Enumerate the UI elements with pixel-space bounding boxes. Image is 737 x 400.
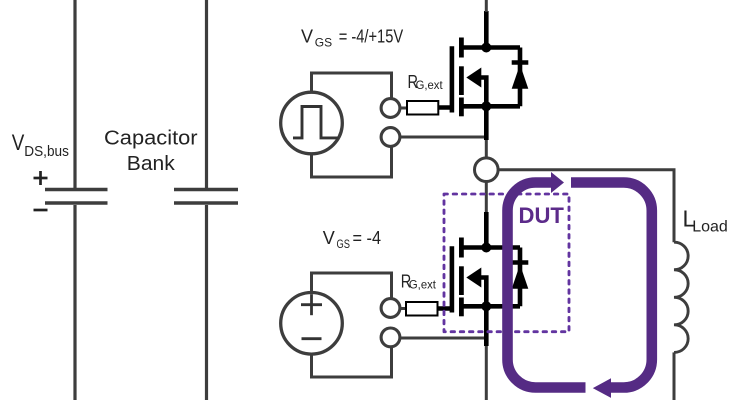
svg-text:GS: GS xyxy=(337,237,351,251)
current loop arc 2 (bottom-left-top with right arrow) xyxy=(508,183,586,388)
gate terminal node (upper) xyxy=(381,99,400,118)
transistor Q2 (DUT MOSFET) xyxy=(452,212,528,346)
wire: kelvin return to source node (low) xyxy=(399,337,486,340)
wire: high-side gate driver loop xyxy=(312,73,392,177)
wire: resistor to gate (black) xyxy=(438,105,451,110)
channel segments xyxy=(459,38,464,58)
wire: capacitor bank vertical (top) xyxy=(205,0,208,188)
source junction dot Q2 xyxy=(481,301,491,311)
pulse source V1 circle xyxy=(281,92,343,154)
minus sign of bus source xyxy=(34,209,48,212)
wire: below inductor xyxy=(673,352,676,400)
capacitor C_bus plates xyxy=(45,188,108,192)
body arrow of Q1 xyxy=(466,68,481,88)
minus sign in V2 xyxy=(302,337,322,340)
diode D2 triangle xyxy=(512,265,529,289)
wire: source to switch node xyxy=(485,140,488,159)
plus sign in V2 xyxy=(301,294,322,315)
resistor R_G,ext (low side) xyxy=(406,302,438,316)
DC source V2 circle xyxy=(281,293,343,355)
wire: low-side gate driver loop xyxy=(312,273,392,377)
current loop arrowhead (bottom, pointing left) xyxy=(593,378,611,398)
svg-text:GS: GS xyxy=(315,35,332,49)
svg-text:G,ext: G,ext xyxy=(416,78,444,92)
svg-text:Bank: Bank xyxy=(127,153,176,175)
wire: switch node to load (horizontal + right vertical) xyxy=(498,170,674,243)
svg-text:= -4: = -4 xyxy=(353,228,382,248)
svg-text:DS,bus: DS,bus xyxy=(24,143,69,160)
body lead xyxy=(479,278,486,307)
svg-text:G,ext: G,ext xyxy=(409,278,437,292)
diode cathode bar xyxy=(512,60,529,65)
drain junction dot Q2 xyxy=(481,243,491,253)
svg-text:V: V xyxy=(12,130,25,155)
current loop arrowhead (top, pointing right) xyxy=(551,172,564,193)
transistor Q1 (high-side MOSFET) xyxy=(452,11,528,140)
switch node circle xyxy=(475,158,499,182)
diode D1 triangle xyxy=(512,65,529,89)
resistor R_G,ext (high side) xyxy=(407,101,438,115)
wire: left DC bus vertical (top) xyxy=(73,0,76,188)
wire: Q2 source to bottom rail xyxy=(485,346,488,400)
svg-text:V: V xyxy=(323,228,335,248)
source stub down xyxy=(484,106,489,140)
wire: terminal to resistor stub (low) xyxy=(399,307,407,310)
wire: switch node down to Q2 xyxy=(485,181,488,212)
wire: top rail gray stub xyxy=(485,0,488,12)
kelvin terminal node (lower) xyxy=(381,128,400,147)
channel segments xyxy=(459,238,464,258)
gate bar xyxy=(450,246,455,312)
wire: kelvin return to source node xyxy=(399,136,486,139)
drain lead xyxy=(461,45,520,50)
svg-text:Capacitor: Capacitor xyxy=(104,128,198,150)
svg-text:V: V xyxy=(301,26,313,46)
drain stub up xyxy=(484,11,489,48)
wire: resistor to gate (black, low) xyxy=(438,306,452,311)
wire: terminal to resistor stub xyxy=(399,107,408,110)
source stub down xyxy=(484,306,489,346)
drain lead xyxy=(461,245,520,250)
gate bar xyxy=(450,46,455,112)
body diode D1 line xyxy=(518,48,523,107)
body lead xyxy=(479,78,486,107)
body arrow of Q2 xyxy=(466,268,481,288)
drain junction dot Q1 xyxy=(481,43,491,53)
svg-text:DUT: DUT xyxy=(519,203,565,228)
svg-text:= -4/+15V: = -4/+15V xyxy=(339,26,404,46)
gate terminal node (lower driver upper) xyxy=(381,299,400,318)
drain stub up xyxy=(484,212,489,248)
kelvin terminal node (lower driver lower) xyxy=(381,328,400,347)
svg-text:Load: Load xyxy=(692,218,728,235)
pulse waveform glyph xyxy=(293,107,339,138)
wire: capacitor bank vertical (bottom) xyxy=(205,205,208,400)
wire: left DC bus vertical (bottom) xyxy=(73,205,76,400)
capacitor C_bank plates xyxy=(174,188,238,192)
plus sign of bus source xyxy=(34,171,48,185)
current loop arc 1 (top-right-bottom with left arrow) xyxy=(571,183,652,388)
inductor L_Load coils xyxy=(674,242,688,352)
source junction dot Q1 xyxy=(481,101,491,111)
diode cathode bar xyxy=(512,260,529,265)
DUT dashed boundary box xyxy=(444,194,569,332)
source lead xyxy=(461,104,520,109)
body diode D2 line xyxy=(518,248,523,307)
source lead xyxy=(461,304,520,309)
